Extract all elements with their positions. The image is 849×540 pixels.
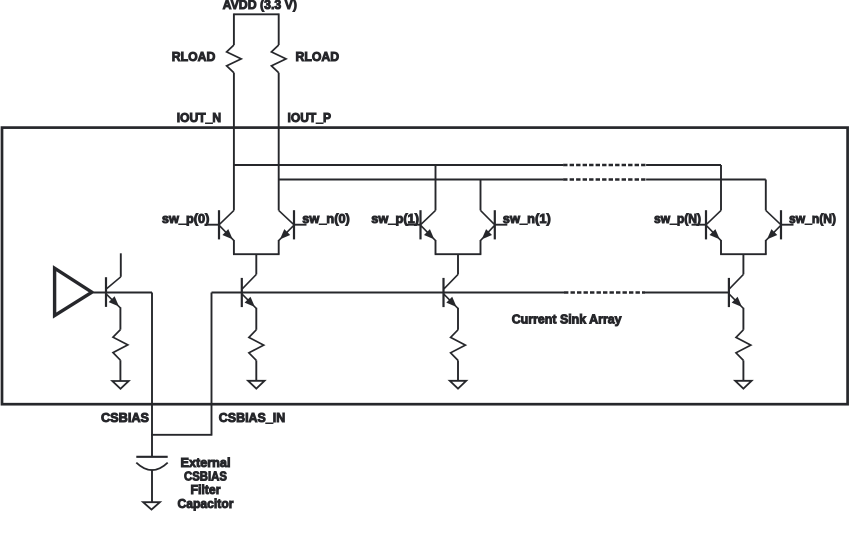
transistor Q1s current sink: [444, 274, 459, 308]
svg-text:sw_p(1): sw_p(1): [371, 211, 419, 226]
op-amp U1 bias buffer: [55, 268, 92, 315]
wire IOUT_P bus drop to QNn: [765, 180, 767, 211]
transistor QNp (sw_p(N) switch): [692, 210, 722, 240]
transistor Q0p (sw_p(0) switch): [205, 210, 234, 240]
transistor Q1n (sw_n(1) switch): [481, 210, 508, 240]
wire CSBIAS jog: [151, 434, 212, 436]
wire sink N emitter to resistor: [742, 308, 744, 330]
transistor Q0s current sink: [242, 274, 256, 308]
svg-text:sw_n(0): sw_n(0): [302, 211, 350, 226]
svg-text:sw_n(N): sw_n(N): [789, 211, 836, 226]
wire CSBIAS_IN bus dashed: [564, 291, 645, 293]
wire IOUT_P vertical: [278, 73, 280, 211]
wire AVDD to RLOAD right: [278, 13, 280, 45]
ground external capacitor: [143, 502, 160, 509]
wire resistor 0 to ground: [255, 360, 257, 380]
wire resistor N to ground: [742, 360, 744, 380]
wire IOUT_P bus dashed: [563, 178, 646, 180]
resistor RNs degeneration: [736, 330, 751, 361]
wire IOUT_N bus solid right: [646, 164, 721, 166]
svg-text:sw_p(N): sw_p(N): [654, 211, 701, 226]
resistor RLOAD right: [271, 45, 286, 73]
wire buffer output to CSBIAS: [92, 292, 152, 294]
transistor QNn (sw_n(N) switch): [766, 210, 794, 240]
svg-text:Filter: Filter: [191, 482, 221, 497]
svg-text:IOUT_N: IOUT_N: [177, 110, 222, 125]
ground sink N: [735, 381, 751, 389]
ground bias branch: [112, 381, 128, 389]
ground sink 1: [450, 381, 466, 389]
transistor Q1b bias mirror: [106, 253, 121, 308]
capacitor C1 external filter: [136, 456, 167, 458]
chip boundary box: [2, 128, 848, 405]
wire CSBIAS riser: [151, 293, 153, 435]
svg-text:CSBIAS: CSBIAS: [101, 410, 149, 425]
svg-text:RLOAD: RLOAD: [296, 49, 340, 64]
wire AVDD rail: [234, 13, 279, 15]
svg-text:sw_p(0): sw_p(0): [162, 211, 210, 226]
resistor R0s degeneration: [249, 330, 264, 361]
wire IOUT_N bus dashed: [563, 164, 646, 166]
ground sink 0: [248, 381, 264, 389]
wire CSBIAS_IN riser: [211, 293, 213, 435]
wire emitters join pair N: [720, 240, 722, 254]
svg-text:sw_n(1): sw_n(1): [503, 211, 551, 226]
transistor Q0n (sw_n(0) switch): [279, 210, 307, 240]
wire emitters join pair 1: [435, 240, 437, 254]
transistor Q1p (sw_p(1) switch): [406, 210, 436, 240]
wire CSBIAS_IN bus solid right: [645, 292, 729, 294]
svg-text:CSBIAS_IN: CSBIAS_IN: [219, 410, 285, 425]
resistor RLOAD left: [227, 45, 242, 73]
wire IOUT_P bus drop to Q1n: [480, 180, 482, 211]
wire IOUT_N bus drop to QNp: [720, 165, 722, 210]
wire AVDD to RLOAD left: [233, 13, 235, 45]
svg-text:RLOAD: RLOAD: [172, 49, 216, 64]
wire emitters join pair 0: [233, 240, 235, 254]
wire bias emitter to resistor: [119, 307, 121, 329]
svg-text:IOUT_P: IOUT_P: [288, 110, 332, 125]
wire CSBIAS_IN bus solid left: [212, 292, 565, 294]
wire capacitor to ground: [151, 470, 153, 502]
wire CSBIAS to capacitor: [151, 435, 153, 457]
resistor R1b bias degeneration: [113, 330, 128, 361]
wire IOUT_N vertical: [233, 73, 235, 211]
wire IOUT_N bus solid left: [234, 164, 563, 166]
svg-text:Current Sink Array: Current Sink Array: [512, 312, 623, 327]
wire bias resistor to ground: [119, 360, 121, 381]
svg-text:AVDD (3.3 V): AVDD (3.3 V): [223, 0, 297, 12]
svg-text:Capacitor: Capacitor: [178, 496, 234, 511]
wire IOUT_N bus drop to Q1p: [435, 165, 437, 210]
resistor R1s degeneration: [451, 330, 466, 361]
wire IOUT_P bus solid right: [646, 179, 766, 181]
transistor QNs current sink: [729, 274, 744, 308]
wire sink 1 emitter to resistor: [457, 308, 459, 330]
wire IOUT_P bus solid left: [279, 179, 563, 181]
wire resistor 1 to ground: [457, 360, 459, 380]
wire sink 0 emitter to resistor: [255, 308, 257, 330]
